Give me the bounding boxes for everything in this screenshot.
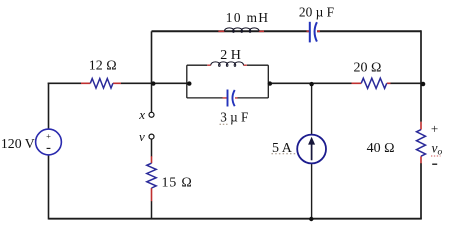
artifact squiggle under 3 [220,123,228,125]
voltage source 120V circle [36,129,62,155]
junction node dot box right [268,81,272,85]
svg-text:v: v [139,129,145,144]
svg-text:x: x [138,107,145,122]
resistor 15ohm red leads [151,156,153,201]
svg-text:20 µ F: 20 µ F [299,5,334,20]
capacitor 20uF right plate [315,22,317,41]
wire middle: left corner to 12ohm [48,82,81,84]
svg-text:12 Ω: 12 Ω [89,59,117,74]
svg-text:15 Ω: 15 Ω [162,175,193,190]
wire middle: box right to 20ohm [268,82,351,84]
svg-text:+: + [431,121,438,136]
capacitor 3uF left plate [227,90,229,107]
wire right vertical lower [420,163,422,219]
parallel box left edge [186,65,188,98]
wire from middle node down to terminal x [151,83,153,112]
wire branch x=151.5 from top wire to middle node [151,31,153,83]
resistor 20ohm red leads [352,82,391,84]
svg-text:40 Ω: 40 Ω [367,141,395,156]
junction node dot 5A top [309,82,313,86]
svg-text:+: + [46,131,51,141]
resistor 40ohm red leads [420,122,422,164]
junction node dot at middle-left [151,81,155,85]
resistor 15ohm zigzag [147,163,156,188]
svg-text:vo: vo [432,141,443,158]
wire middle: 12ohm to box left [121,82,187,84]
terminal v open circle [149,134,154,139]
svg-text:5 A: 5 A [272,141,293,156]
wire top: left corner to 20uF left plate [152,30,310,32]
parallel box bottom edge segments [187,97,268,99]
artifact dotted underline under 5 A [272,153,297,155]
resistor 20ohm zigzag [361,78,387,88]
wire from 15ohm down to bottom wire [151,201,153,219]
parallel box right edge [267,65,269,98]
voltage source minus sign [47,147,51,149]
terminal x open circle [149,112,154,117]
svg-text:2 H: 2 H [220,48,241,63]
inductor 10mH [224,28,259,33]
resistor 40ohm zigzag [417,130,426,157]
junction node dot 5A bottom [309,217,313,221]
junction node dot right wire [421,82,426,87]
svg-text:10 mH: 10 mH [226,10,270,25]
inductor 2H [211,62,244,66]
svg-text:3 µ F: 3 µ F [220,109,248,124]
resistor 12ohm zigzag [90,79,113,89]
inductor 2H red leads [207,64,247,66]
wire middle: 20ohm to right wire [390,82,421,84]
capacitor 3uF red tips [223,97,238,99]
wire from 5A source down to bottom wire [311,164,313,219]
wire from middle node down to 5A source [311,83,313,134]
current source 5A circle [297,135,326,164]
wire right vertical upper [420,30,422,122]
wire bottom [49,218,422,220]
wire left vertical upper [48,83,50,130]
capacitor 3uF right plate [232,90,234,106]
resistor 12ohm red leads [81,82,121,84]
capacitor 20uF red tips [307,30,321,32]
svg-text:120 V: 120 V [1,136,35,151]
current source arrow shaft [311,142,313,161]
artifact red squiggle under vo [431,155,441,157]
inductor 10mH red leads [218,30,264,32]
label minus vo [432,163,437,165]
parallel box top edge segments [187,64,268,66]
wire left vertical lower [48,155,50,220]
wire top: 20uF right plate to right corner [317,30,421,32]
svg-text:20 Ω: 20 Ω [353,60,381,75]
current source arrow head [308,137,315,145]
capacitor 20uF left plate [309,22,311,43]
wire from terminal v down to 15ohm [151,139,153,156]
junction node dot box left [187,81,191,85]
